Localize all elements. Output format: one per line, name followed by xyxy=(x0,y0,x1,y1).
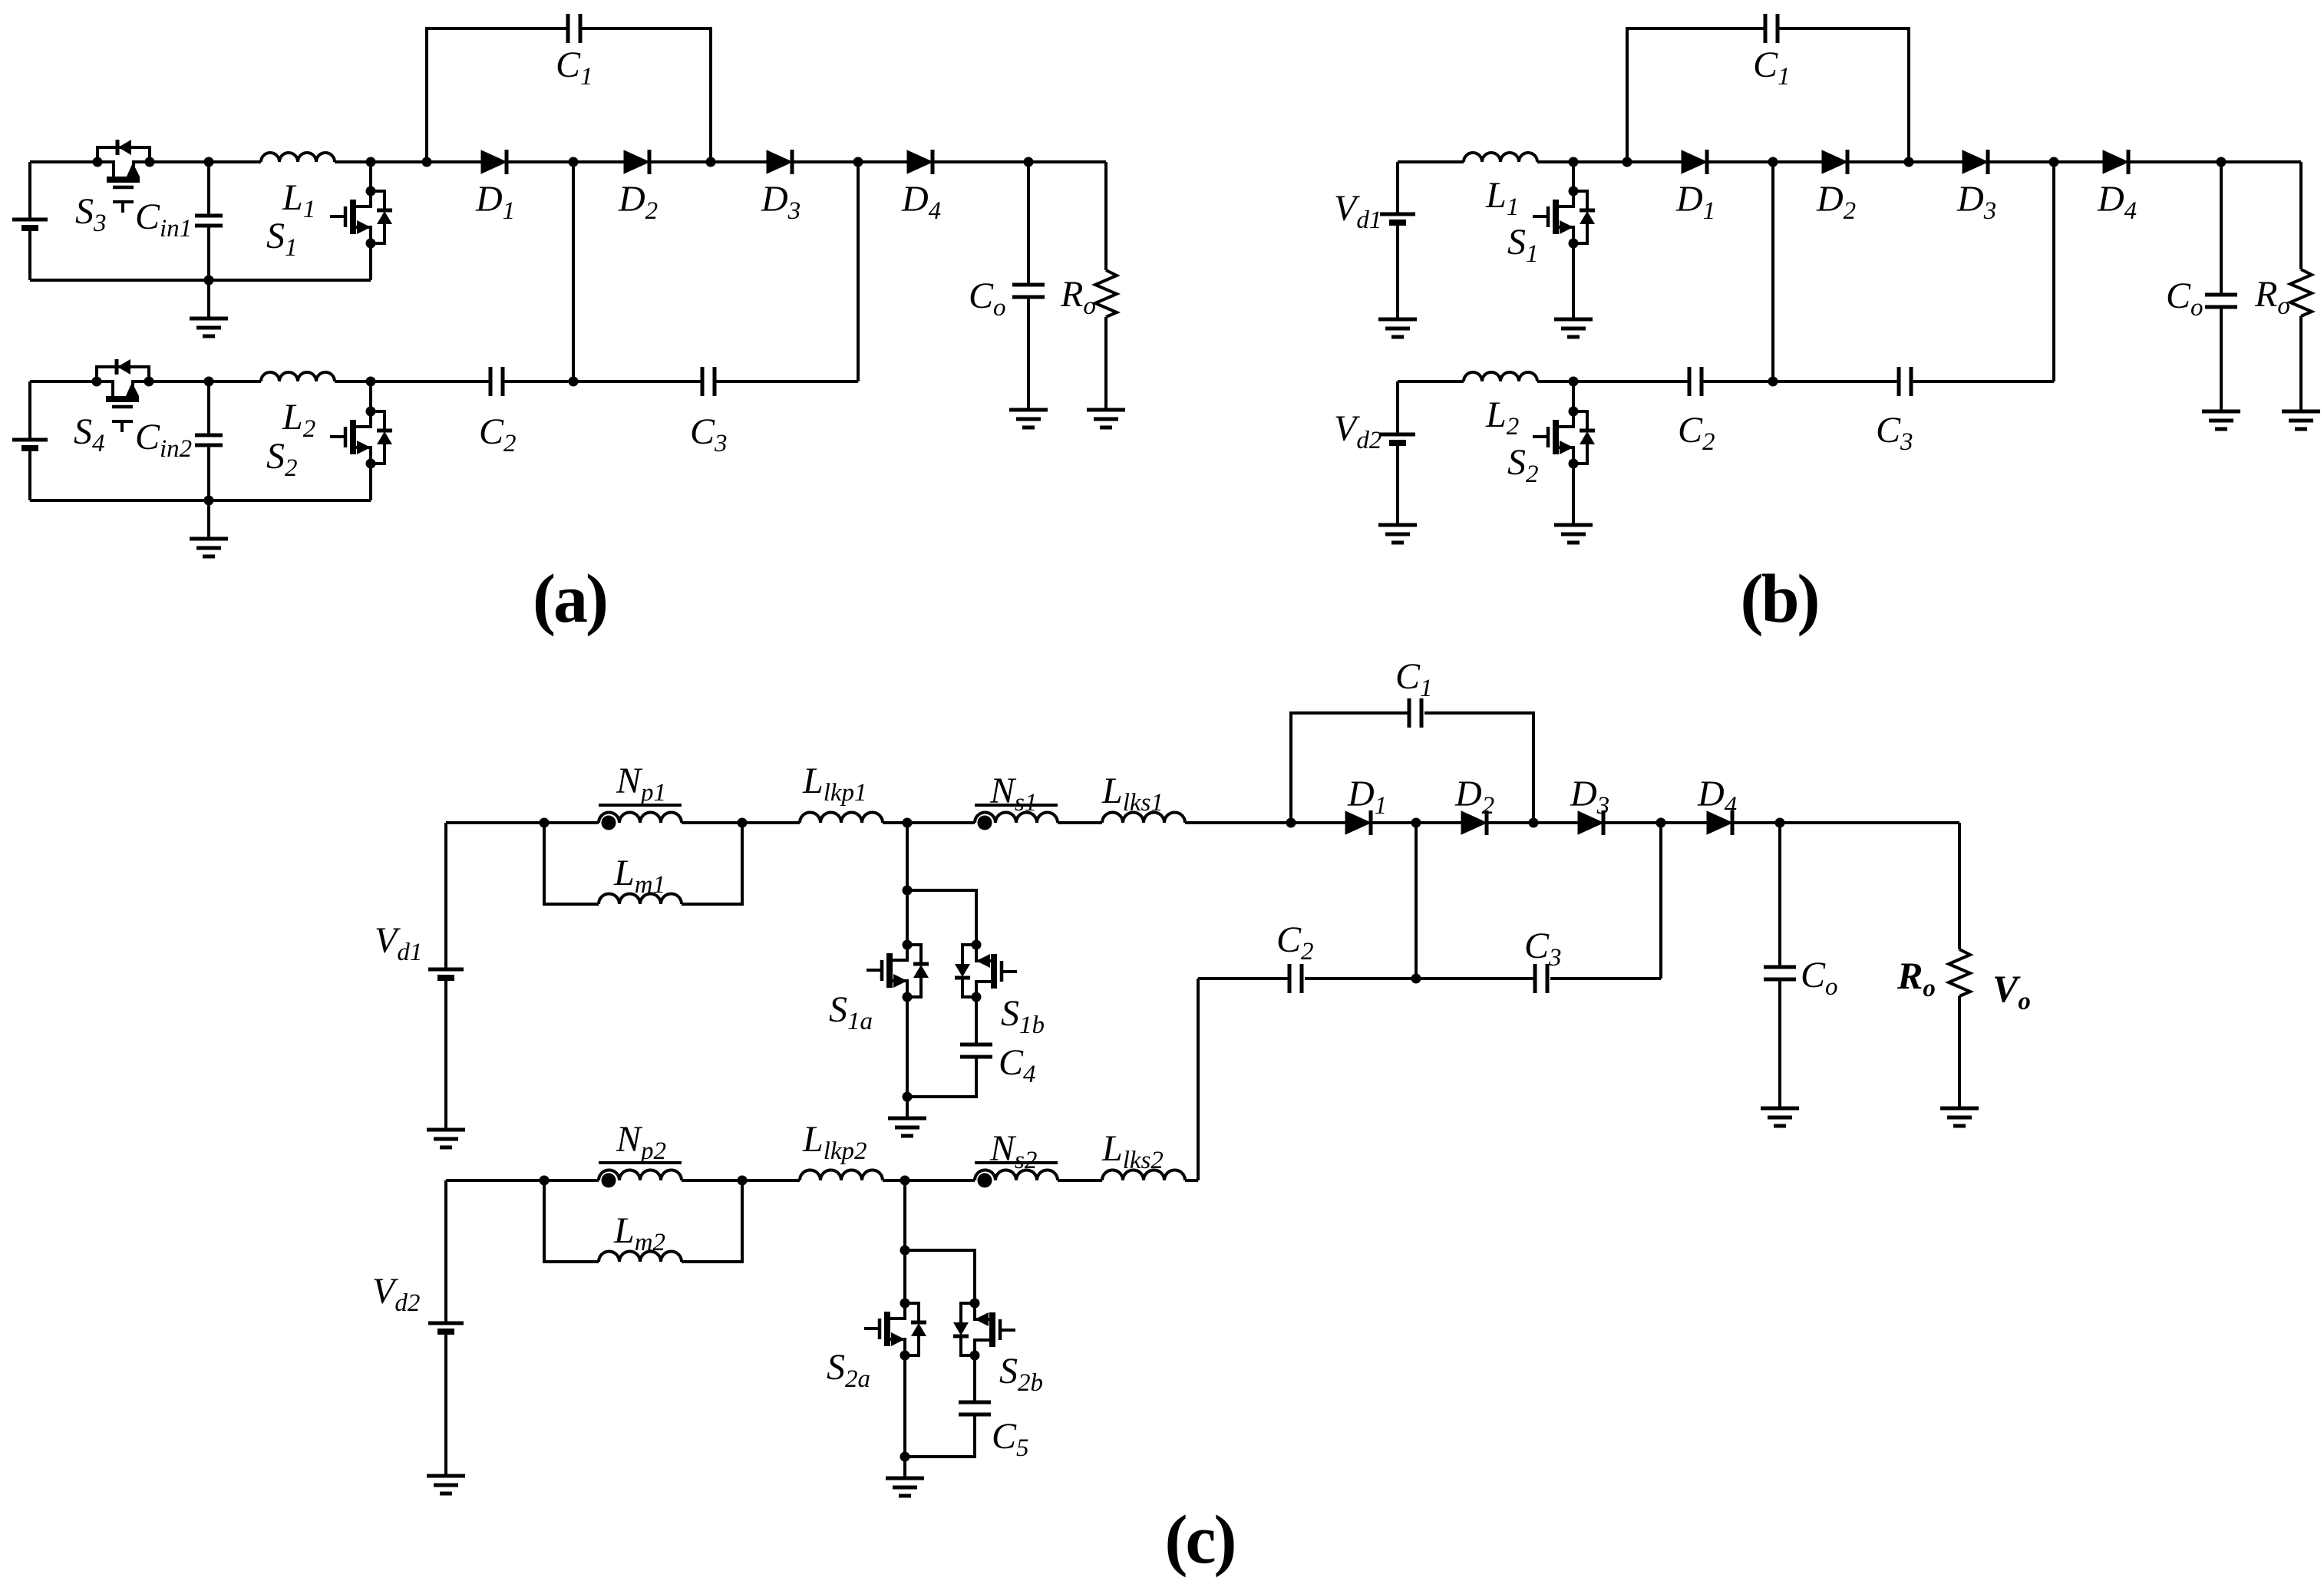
node: L1/S1 junction (b) xyxy=(1569,157,1579,167)
svg-text:(b): (b) xyxy=(1741,561,1818,637)
winding Ns1 overline xyxy=(975,804,1058,807)
svg-text:Lm2: Lm2 xyxy=(613,1210,665,1256)
node: C1 left tap (c) xyxy=(1286,818,1296,828)
wire: D3-D4 junction down to C3 right (b) xyxy=(2052,162,2055,381)
wire: C2-C3 junction riser xyxy=(1415,823,1418,979)
svg-text:Vd2: Vd2 xyxy=(1334,408,1382,454)
node: L2/S2/C2 junction xyxy=(366,377,376,387)
wire: (b) row2 bus xyxy=(1398,380,2054,383)
svg-text:C1: C1 xyxy=(1395,656,1433,702)
battery Vd1 (c) xyxy=(428,969,464,978)
node: Cin1 top xyxy=(204,157,214,167)
capacitor C2 (a) xyxy=(490,367,503,396)
svg-text:D3: D3 xyxy=(1956,179,1996,225)
svg-text:Vo: Vo xyxy=(1992,967,2031,1015)
svg-text:D1: D1 xyxy=(1347,774,1387,820)
wire: C1 branch left vertical xyxy=(427,28,711,162)
wire: Llks2 riser to C2 xyxy=(1197,979,1200,1180)
battery Vd2 (b) xyxy=(1380,434,1415,443)
wire: S1b bypass top xyxy=(907,890,976,945)
inductor Llks2 xyxy=(1102,1170,1185,1181)
svg-text:L1: L1 xyxy=(282,177,315,223)
svg-text:Np1: Np1 xyxy=(616,761,666,807)
svg-text:D2: D2 xyxy=(1454,774,1494,820)
svg-text:L2: L2 xyxy=(1485,394,1519,441)
node: D3-D4 junction (c) xyxy=(1656,818,1666,828)
svg-text:C2: C2 xyxy=(1276,919,1314,965)
svg-text:C5: C5 xyxy=(992,1416,1029,1462)
winding Ns1 polarity dot xyxy=(978,816,992,830)
node: L1/S1/D1 junction xyxy=(366,157,376,167)
wire: S1a branch top xyxy=(906,823,909,945)
node: C1 right tap (c) xyxy=(1529,818,1539,828)
inductor L1 xyxy=(261,153,335,162)
svg-text:Cin2: Cin2 xyxy=(135,417,192,463)
svg-text:D4: D4 xyxy=(2097,179,2137,225)
svg-text:S1b: S1b xyxy=(1001,993,1045,1039)
svg-text:C3: C3 xyxy=(690,411,728,457)
wire: (c) row1 bus xyxy=(446,821,1959,824)
node: Llkp2/S2a/Ns2 junction xyxy=(900,1176,910,1186)
svg-text:Co: Co xyxy=(2166,276,2204,322)
node: S1a/C4 bottom junction xyxy=(903,1092,913,1102)
capacitor C1 (b) xyxy=(1765,14,1778,43)
svg-text:D1: D1 xyxy=(475,179,515,225)
diode D1 (a) xyxy=(481,150,507,174)
svg-text:Cin1: Cin1 xyxy=(135,196,192,243)
svg-text:(a): (a) xyxy=(533,561,606,637)
node: C2-C3 junction (c) xyxy=(1411,974,1421,984)
ground below Co (c) xyxy=(1761,1108,1799,1126)
svg-text:Ro: Ro xyxy=(1060,274,1096,320)
svg-text:S2b: S2b xyxy=(999,1351,1043,1397)
wire: (a) row2 bus xyxy=(30,380,858,383)
ground below Cin1 xyxy=(207,280,210,319)
svg-text:L2: L2 xyxy=(282,397,315,443)
transistor S2 xyxy=(330,407,392,469)
wire: S1 (b) source to ground xyxy=(1572,243,1575,319)
svg-text:C3: C3 xyxy=(1876,410,1913,456)
transistor S2 (b) xyxy=(1533,407,1595,469)
svg-text:Vd2: Vd2 xyxy=(372,1271,420,1317)
svg-text:C1: C1 xyxy=(1753,45,1791,91)
ground below S1 (b) xyxy=(1554,319,1593,337)
winding Np2 xyxy=(599,1170,682,1181)
node: C1 left tap (b) xyxy=(1623,157,1632,167)
node: S2a/C5 bottom junction xyxy=(900,1452,910,1462)
wire: D3-D4 junction down to C3 right xyxy=(857,162,860,381)
capacitor C1 (c) xyxy=(1409,698,1421,728)
diode D4 (c) xyxy=(1707,810,1732,835)
battery (a) input source 2 xyxy=(12,440,48,448)
svg-text:D3: D3 xyxy=(1570,774,1609,820)
node: D1-D2 junction xyxy=(569,157,579,167)
capacitor Cin2 xyxy=(207,381,210,500)
capacitor Co (b) xyxy=(2220,162,2223,411)
capacitor C3 (c) xyxy=(1535,964,1547,993)
svg-text:Ro: Ro xyxy=(1897,954,1936,1002)
inductor L2 (b) xyxy=(1464,372,1537,381)
winding Ns2 overline xyxy=(975,1161,1058,1164)
node: C1 left tap xyxy=(422,157,432,167)
winding Np1 overline xyxy=(599,804,682,807)
svg-text:Llkp2: Llkp2 xyxy=(802,1119,867,1165)
diode D3 (b) xyxy=(1963,150,1988,174)
svg-text:C2: C2 xyxy=(1678,410,1715,456)
diode D4 (a) xyxy=(907,150,933,174)
ground below Ro (a) xyxy=(1087,410,1125,427)
node: D1-D2 junction (b) xyxy=(1768,157,1778,167)
ground below Vd2 (b) xyxy=(1378,525,1417,543)
wire: S1 source to return xyxy=(369,243,372,280)
ground below S2a xyxy=(886,1478,924,1496)
svg-text:Np2: Np2 xyxy=(616,1119,666,1165)
wire: (a) bottom return 1 xyxy=(30,279,371,282)
inductor Lm2 coil xyxy=(599,1252,682,1263)
winding Np1 xyxy=(599,813,682,824)
transistor S1 xyxy=(330,186,392,249)
winding Np2 overline xyxy=(599,1161,682,1164)
ground below Cin2 xyxy=(207,500,210,539)
svg-text:(c): (c) xyxy=(1165,1502,1235,1578)
node: C2-C3 junction xyxy=(569,377,579,387)
ground below Vd1 (c) xyxy=(427,1130,465,1147)
wire: (a) input2 left vertical xyxy=(28,381,31,500)
winding Np1 polarity dot xyxy=(602,816,616,830)
svg-text:D4: D4 xyxy=(1697,774,1737,820)
svg-text:S3: S3 xyxy=(75,191,107,237)
transistor S2b xyxy=(953,1299,1015,1361)
svg-text:D2: D2 xyxy=(618,179,658,225)
svg-text:D1: D1 xyxy=(1675,179,1715,225)
battery Vd2 (c) xyxy=(428,1323,464,1332)
svg-text:C1: C1 xyxy=(556,45,593,91)
capacitor C2 (c) xyxy=(1289,964,1302,993)
svg-text:Vd1: Vd1 xyxy=(375,920,422,966)
resistor Ro (a) xyxy=(1104,162,1108,410)
capacitor C1 (a) xyxy=(568,14,580,43)
transistor S1b xyxy=(955,940,1017,1002)
diode D1 (b) xyxy=(1682,150,1707,174)
node: Np1 left junction xyxy=(540,818,550,828)
diode D1 (c) xyxy=(1345,810,1371,835)
svg-text:D2: D2 xyxy=(1816,179,1856,225)
winding Ns1 xyxy=(975,813,1058,824)
node: L2/S2 junction (b) xyxy=(1569,377,1579,387)
wire: (c) row2 bus xyxy=(446,1179,1198,1182)
wire: S2 drain stub xyxy=(369,381,372,411)
wire: (b) row1 bus xyxy=(1398,160,2301,163)
inductor Lm2 branch xyxy=(544,1180,742,1262)
capacitor C4 xyxy=(907,997,976,1097)
wire: S1 drain stub xyxy=(369,162,372,191)
node: output node (a) xyxy=(1024,157,1034,167)
wire: S2 source to return xyxy=(369,464,372,500)
wire: Vd2 stem (c) xyxy=(444,1180,447,1476)
svg-text:C4: C4 xyxy=(999,1042,1036,1088)
svg-text:D3: D3 xyxy=(761,179,801,225)
node: Llkp1/S1a/Ns1 junction xyxy=(903,818,913,828)
diode D2 (c) xyxy=(1461,810,1487,835)
node: Cin2 bottom xyxy=(204,496,214,506)
capacitor C3 (a) xyxy=(702,367,715,396)
inductor Lm1 coil xyxy=(599,894,682,905)
winding Ns2 polarity dot xyxy=(978,1173,992,1188)
node: D3-D4 junction xyxy=(853,157,863,167)
wire: S1 (b) drain stub xyxy=(1572,162,1575,191)
wire: Vd1 stem xyxy=(1396,162,1399,319)
svg-text:S2a: S2a xyxy=(827,1347,870,1393)
svg-text:C2: C2 xyxy=(479,411,517,457)
wire: C3 right riser xyxy=(1659,823,1662,979)
capacitor Cin1 xyxy=(207,162,210,280)
svg-text:S1: S1 xyxy=(266,216,298,262)
ground below S1a xyxy=(888,1118,926,1136)
node: output node (c) xyxy=(1775,818,1785,828)
diode D4 (b) xyxy=(2103,150,2128,174)
wire: (a) input1 left vertical xyxy=(28,162,31,280)
battery Vd1 (b) xyxy=(1380,214,1415,223)
svg-text:Co: Co xyxy=(969,276,1006,322)
inductor Llkp2 xyxy=(800,1170,883,1181)
ground below Co (b) xyxy=(2202,411,2240,429)
wire: D1-D2 junction down to C2-C3 row xyxy=(572,162,575,381)
svg-text:S2: S2 xyxy=(266,436,298,482)
wire: S2 (b) source to ground xyxy=(1572,464,1575,525)
inductor L2 xyxy=(261,372,335,381)
node: Np1 right junction xyxy=(738,818,748,828)
wire: S2 (b) drain stub xyxy=(1572,381,1575,411)
node: D1-D2 junction (c) xyxy=(1411,818,1421,828)
inductor L1 (b) xyxy=(1464,153,1537,162)
capacitor C5 xyxy=(905,1355,975,1457)
svg-text:Ro: Ro xyxy=(2254,274,2290,320)
node: C1 right tap (b) xyxy=(1904,157,1914,167)
svg-text:C3: C3 xyxy=(1524,926,1562,972)
wire: D1-D2 junction down to C2-C3 row (b) xyxy=(1771,162,1774,381)
winding Ns2 xyxy=(975,1170,1058,1181)
svg-text:L1: L1 xyxy=(1485,175,1519,221)
wire: C1 branch (b) xyxy=(1627,28,1909,162)
node: S2a/S2b top junction xyxy=(900,1246,910,1256)
svg-text:Llks1: Llks1 xyxy=(1101,771,1164,817)
wire: (a) bottom return 2 xyxy=(30,499,371,502)
battery (a) input source 1 xyxy=(12,220,48,228)
node: C1 right tap xyxy=(706,157,716,167)
svg-text:Co: Co xyxy=(1801,955,1838,1001)
svg-text:S2: S2 xyxy=(1507,442,1539,488)
resistor Ro (c) xyxy=(1958,823,1961,1108)
inductor Llkp1 xyxy=(800,813,883,824)
transistor S3 xyxy=(93,140,155,213)
inductor Llks1 xyxy=(1102,813,1185,824)
wire: Vd2 stem xyxy=(1396,381,1399,525)
winding Np2 polarity dot xyxy=(602,1173,616,1188)
svg-text:Ns1: Ns1 xyxy=(989,771,1037,817)
node: Np2 left junction xyxy=(540,1176,550,1186)
node: C2-C3 junction (b) xyxy=(1768,377,1778,387)
ground below S2 (b) xyxy=(1554,525,1593,543)
capacitor Co (c) xyxy=(1778,823,1781,1108)
transistor S1 (b) xyxy=(1533,186,1595,249)
node: Cin1 bottom xyxy=(204,276,214,286)
ground below Ro (b) xyxy=(2282,411,2320,429)
ground below Vd2 (c) xyxy=(427,1476,465,1494)
svg-text:D4: D4 xyxy=(901,179,941,225)
svg-text:Ns2: Ns2 xyxy=(989,1128,1037,1174)
wire: S2a branch top xyxy=(903,1180,906,1303)
node: Cin2 top xyxy=(204,377,214,387)
transistor S2a xyxy=(864,1299,926,1361)
svg-text:Llkp1: Llkp1 xyxy=(802,761,867,807)
svg-text:S1: S1 xyxy=(1507,222,1539,268)
ground below Vd1 (b) xyxy=(1378,319,1417,337)
wire: (a) row1 bus xyxy=(30,160,1106,163)
svg-text:S1a: S1a xyxy=(829,989,873,1035)
transistor S1a xyxy=(867,940,929,1002)
svg-text:Lm1: Lm1 xyxy=(613,853,665,899)
wire: S2a source down xyxy=(903,1355,906,1478)
transistor S4 xyxy=(92,359,154,432)
svg-text:Llks2: Llks2 xyxy=(1101,1128,1164,1174)
wire: S2b bypass top xyxy=(905,1250,975,1303)
wire: Vd1 stem (c) xyxy=(444,823,447,1130)
wire: C1 loop (c) xyxy=(1291,713,1533,823)
inductor Lm1 branch xyxy=(544,823,742,904)
node: Np2 right junction xyxy=(738,1176,748,1186)
diode D2 (b) xyxy=(1822,150,1847,174)
node: output node (b) xyxy=(2217,157,2227,167)
diode D2 (a) xyxy=(624,150,649,174)
diode D3 (c) xyxy=(1578,810,1603,835)
wire: S1a source down xyxy=(906,997,909,1118)
svg-text:Vd1: Vd1 xyxy=(1334,188,1382,234)
capacitor Co (a) xyxy=(1027,162,1030,410)
diode D3 (a) xyxy=(767,150,792,174)
wire: C2-C3 row (c) xyxy=(1198,977,1661,980)
capacitor C2 (b) xyxy=(1689,367,1702,396)
resistor Ro (b) xyxy=(2299,162,2303,411)
svg-text:S4: S4 xyxy=(74,411,105,457)
capacitor C3 (b) xyxy=(1899,367,1911,396)
ground below Co (a) xyxy=(1009,410,1048,427)
ground below Ro (c) xyxy=(1940,1108,1979,1126)
node: D3-D4 junction (b) xyxy=(2049,157,2059,167)
node: S1a/S1b top junction xyxy=(903,886,913,896)
